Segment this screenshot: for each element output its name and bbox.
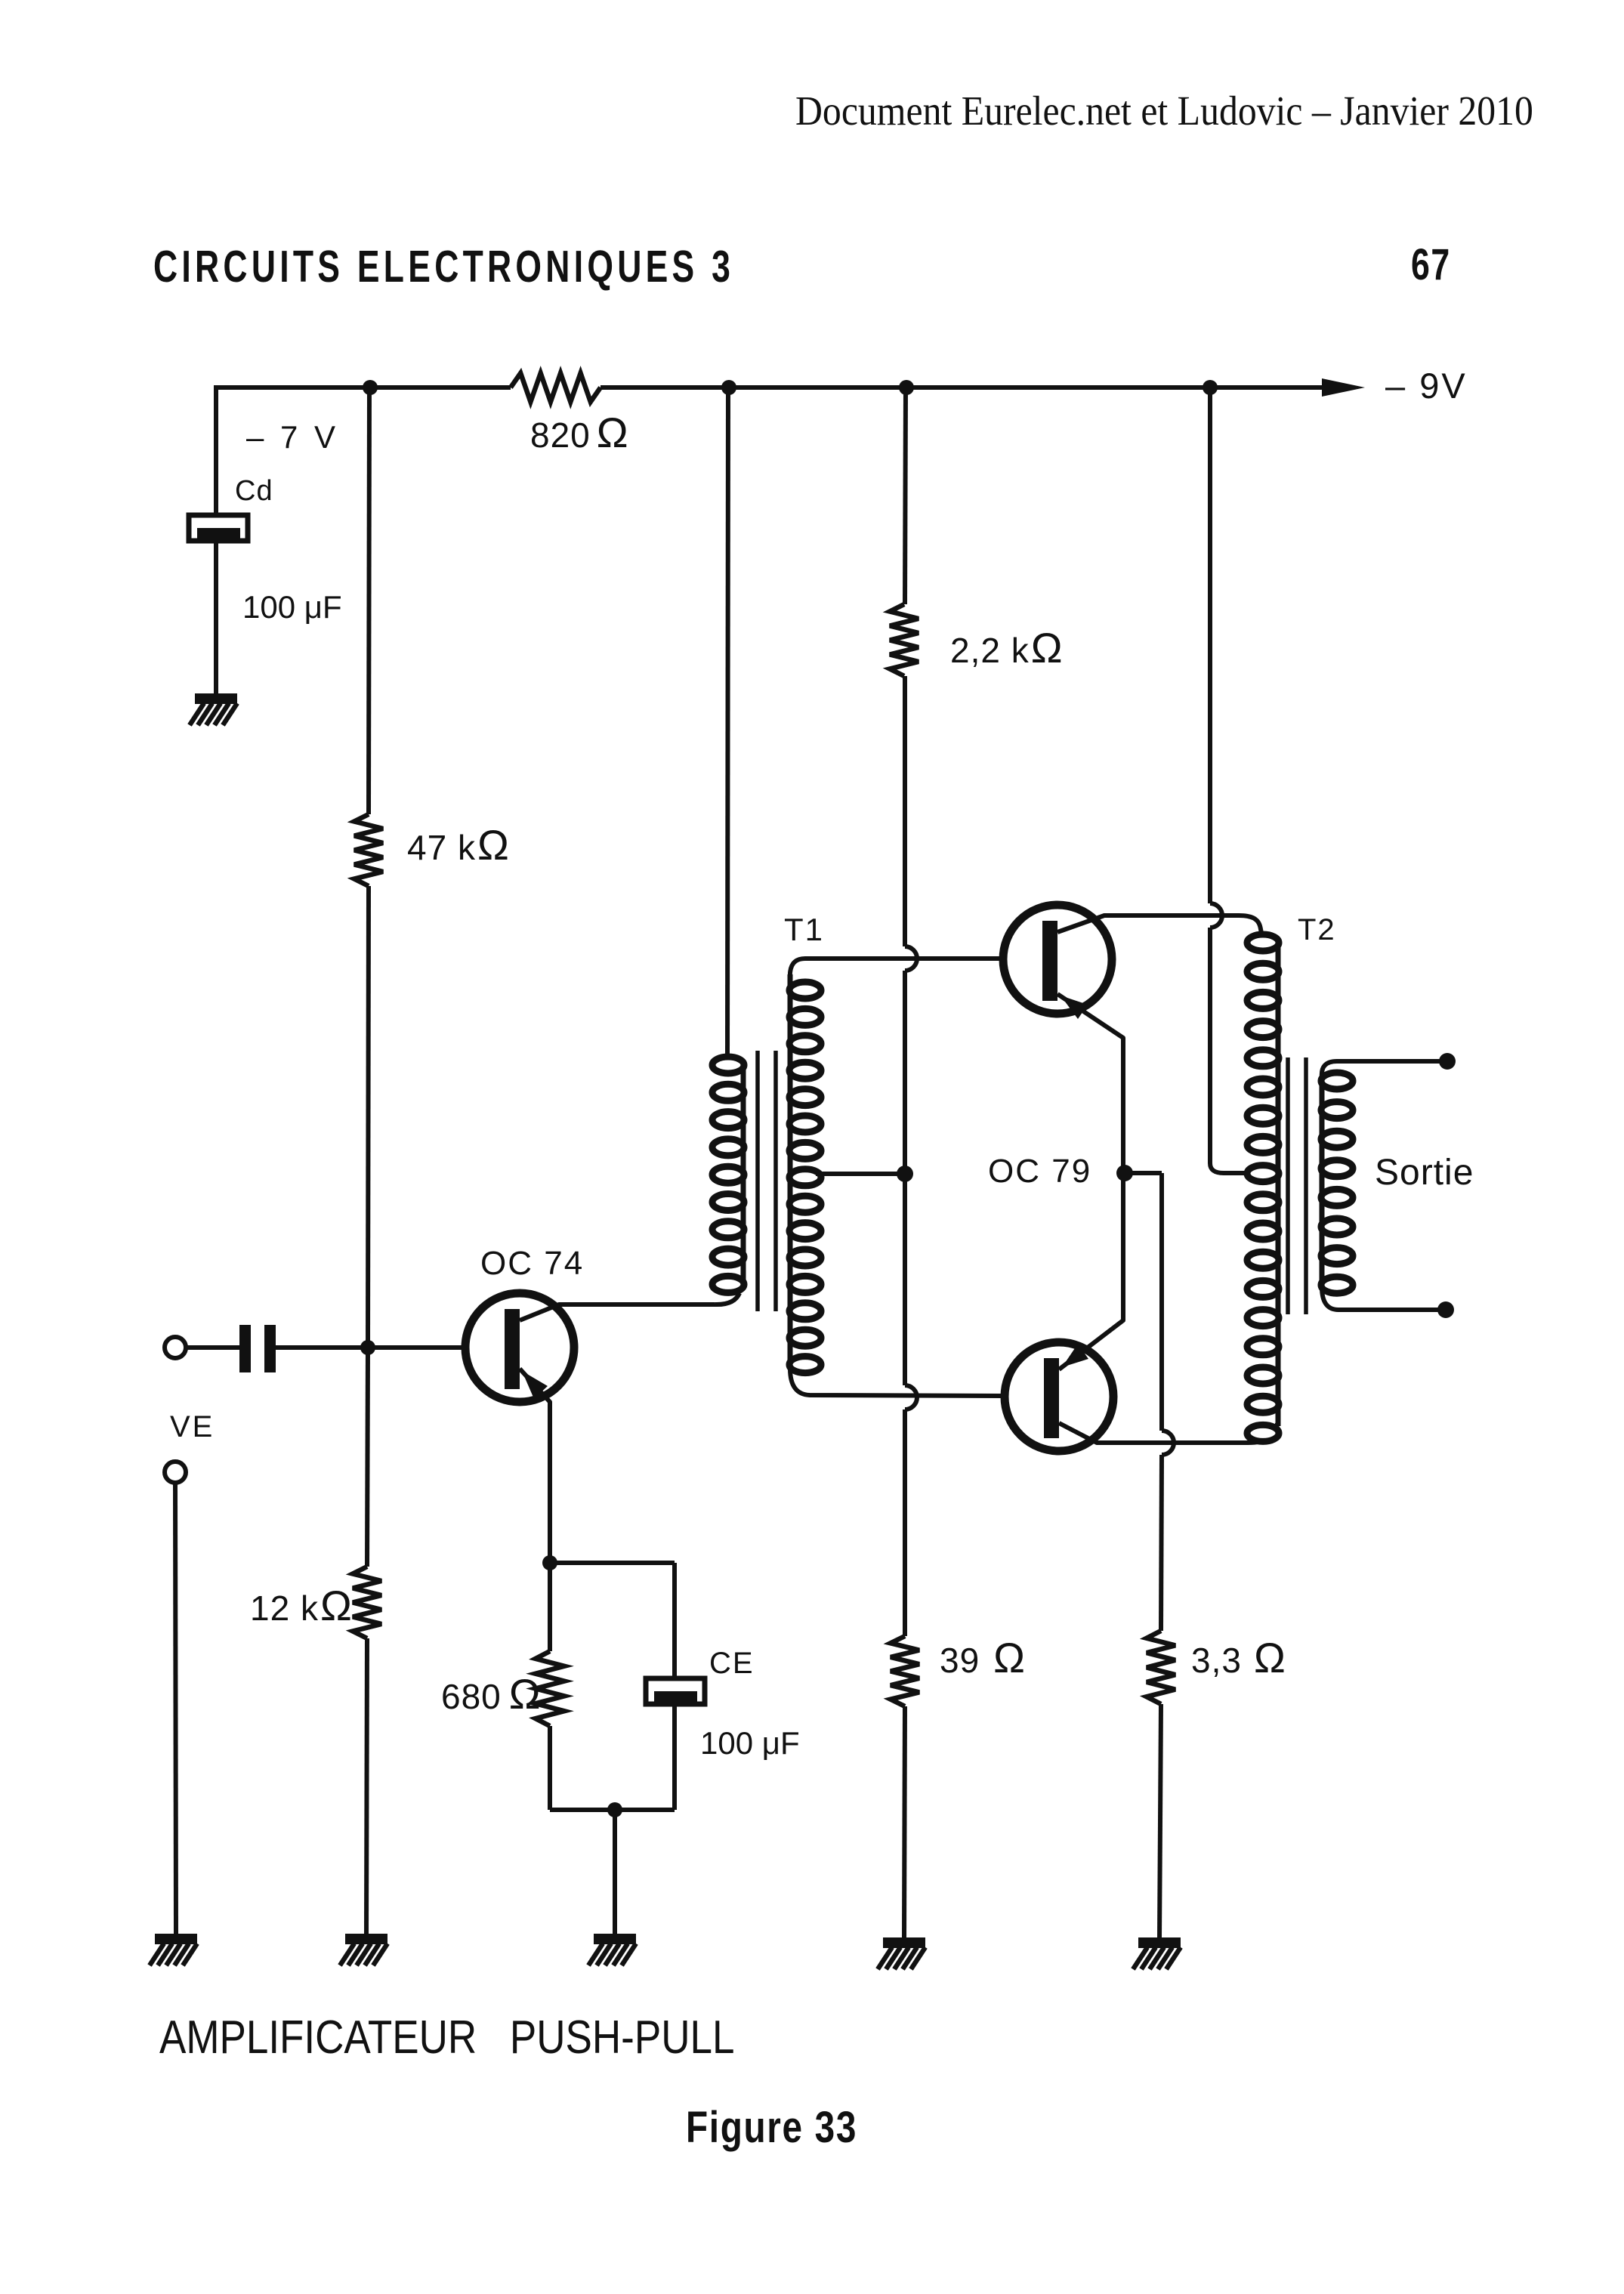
wire left branch down to Cd bbox=[214, 385, 218, 517]
wire 12k to ground bbox=[366, 1638, 367, 1935]
wire common emitter node to 3.3 ohm (hops over T2 bottom lead) bbox=[1125, 1173, 1174, 1631]
label page number 67 bbox=[1411, 239, 1451, 289]
label T1 bbox=[784, 912, 824, 947]
wire top supply rail (-9V) bbox=[216, 385, 1327, 390]
node junction dot centre tap / divider bbox=[897, 1166, 913, 1182]
svg-text:Figure 33: Figure 33 bbox=[686, 2104, 857, 2152]
svg-text:2,2 kΩ: 2,2 kΩ bbox=[950, 624, 1064, 672]
wire 2.2k branch from rail bbox=[905, 387, 906, 604]
label 39 ohm value bbox=[940, 1634, 1026, 1681]
wire OC79 lower collector to T2 primary bottom bbox=[1059, 1423, 1277, 1443]
wire Cd to ground bbox=[214, 541, 218, 695]
label -7V bbox=[246, 419, 339, 455]
node junction dot rail/T2 centre-tap branch bbox=[1203, 380, 1218, 395]
resistor 39 ohm bbox=[891, 1636, 919, 1706]
wire OC79 upper emitter (with arrow) down to common node bbox=[1057, 994, 1123, 1169]
wire T1 primary feed from rail bbox=[727, 387, 728, 1059]
wire base node to 12k bbox=[367, 1348, 368, 1567]
svg-text:100 μF: 100 μF bbox=[700, 1725, 800, 1761]
svg-text:Document Eurelec.net et Ludovi: Document Eurelec.net et Ludovic – Janvie… bbox=[795, 88, 1533, 134]
label Cd bbox=[235, 475, 273, 507]
label book title bbox=[153, 242, 734, 292]
arrowhead -9V supply bbox=[1322, 378, 1365, 397]
transformer T2 core bbox=[1288, 1057, 1306, 1314]
label 2.2 kohm value bbox=[950, 624, 1064, 672]
wire OC79 upper collector to T2 primary top (hop by supply line) bbox=[1057, 915, 1261, 934]
terminal VE (bottom) bbox=[165, 1462, 186, 1483]
wire hop over T1 bottom lead, down to 39 ohm bbox=[905, 1385, 917, 1636]
label 820 ohm value bbox=[530, 409, 629, 456]
label OC 74 bbox=[480, 1245, 584, 1282]
svg-text:100 μF: 100 μF bbox=[242, 589, 342, 625]
transformer T1 secondary winding bbox=[789, 974, 821, 1373]
capacitor input coupling bbox=[239, 1325, 276, 1372]
label 100 uF (Cd value) bbox=[242, 589, 342, 625]
label Sortie bbox=[1375, 1153, 1474, 1193]
node junction dot rail/2.2k branch bbox=[899, 380, 914, 395]
label 680 ohm value bbox=[441, 1670, 542, 1718]
wire T2 secondary bottom lead to output bbox=[1322, 1287, 1438, 1310]
label VE bbox=[170, 1410, 215, 1443]
wire emitter network to ground bbox=[613, 1810, 617, 1935]
node junction dot common emitters bbox=[1116, 1165, 1133, 1181]
wire 680 ohm to bottom node bbox=[548, 1726, 552, 1810]
transistor OC74 (driver) bbox=[465, 1293, 574, 1402]
label 47 kohm value bbox=[407, 821, 510, 869]
svg-text:Sortie: Sortie bbox=[1375, 1153, 1474, 1193]
wire input terminal to coupling capacitor bbox=[186, 1345, 239, 1350]
label caption AMPLIFICATEUR PUSH-PULL bbox=[159, 2011, 734, 2064]
label page header bbox=[795, 88, 1533, 134]
resistor 820 ohm (series in rail) bbox=[511, 373, 601, 402]
label OC 79 bbox=[988, 1153, 1091, 1190]
resistor 3.3 ohm bbox=[1147, 1631, 1175, 1704]
label CE bbox=[709, 1647, 755, 1680]
label 12 kohm value bbox=[250, 1582, 353, 1629]
resistor 2.2 kohm bbox=[890, 604, 919, 676]
wire 39 ohm to ground bbox=[904, 1706, 905, 1939]
svg-text:VE: VE bbox=[170, 1410, 215, 1443]
wire OC74 emitter node bbox=[542, 1555, 557, 1651]
ground symbol below Cd bbox=[190, 693, 237, 725]
wire OC74 collector to T1 primary bbox=[520, 1293, 739, 1320]
label Figure 33 bbox=[686, 2104, 857, 2152]
svg-text:39Ω: 39Ω bbox=[940, 1634, 1026, 1681]
wire T2 centre-tap branch from rail (hops under collector line) bbox=[1210, 387, 1249, 1173]
capacitor Cd (electrolytic) bbox=[189, 515, 248, 541]
wire 3.3 ohm to ground bbox=[1159, 1704, 1161, 1939]
node junction dot rail/T1 primary feed bbox=[721, 380, 736, 395]
svg-text:680Ω: 680Ω bbox=[441, 1670, 542, 1718]
wire T1 secondary top lead to OC79 upper base bbox=[790, 959, 1002, 979]
node junction dot base of OC74 bbox=[360, 1340, 375, 1355]
node junction dot rail/Cd branch bbox=[363, 380, 378, 395]
svg-text:47 kΩ: 47 kΩ bbox=[407, 821, 510, 869]
svg-text:CE: CE bbox=[709, 1647, 755, 1680]
svg-text:CIRCUITS ELECTRONIQUES 3: CIRCUITS ELECTRONIQUES 3 bbox=[153, 242, 734, 292]
svg-text:– 9V: – 9V bbox=[1385, 366, 1468, 406]
wire emitter node to CE branch bbox=[550, 1563, 675, 1680]
wire 47k to base node bbox=[368, 886, 369, 1348]
svg-text:Cd: Cd bbox=[235, 475, 273, 507]
wire T1 secondary centre tap bbox=[816, 1172, 905, 1176]
svg-text:820Ω: 820Ω bbox=[530, 409, 629, 456]
ground symbol below 3.3 ohm bbox=[1133, 1937, 1181, 1969]
svg-text:OC 74: OC 74 bbox=[480, 1245, 584, 1282]
terminal output bottom bbox=[1437, 1301, 1454, 1318]
svg-text:3,3Ω: 3,3Ω bbox=[1191, 1634, 1286, 1681]
ground symbol below VE bbox=[150, 1934, 197, 1965]
ground symbol below 12k bbox=[340, 1934, 387, 1965]
wire bias divider branch (47k/12k) from rail bbox=[369, 387, 369, 814]
transistor OC79 upper bbox=[1003, 905, 1112, 1014]
transistor OC79 lower bbox=[1005, 1342, 1113, 1451]
capacitor CE (electrolytic) bbox=[646, 1678, 705, 1704]
svg-text:12 kΩ: 12 kΩ bbox=[250, 1582, 353, 1629]
terminal output top bbox=[1439, 1053, 1456, 1070]
transformer T2 primary winding bbox=[1247, 934, 1279, 1441]
transformer T2 secondary winding bbox=[1321, 1073, 1353, 1293]
svg-text:T1: T1 bbox=[784, 912, 824, 947]
svg-text:T2: T2 bbox=[1298, 913, 1336, 946]
ground symbol below 39 ohm bbox=[878, 1937, 925, 1969]
ground symbol below emitter network bbox=[588, 1934, 636, 1965]
transformer T1 core bbox=[758, 1051, 776, 1311]
wire 2.2k down to centre-tap node (hops over T1 top lead) bbox=[905, 676, 917, 1385]
wire bottom node joining 680 and CE bbox=[550, 1808, 675, 1812]
wire coupling capacitor to OC74 base bbox=[276, 1345, 464, 1350]
resistor 680 ohm bbox=[536, 1651, 564, 1726]
terminal input (top) bbox=[165, 1337, 186, 1358]
wire T2 secondary top lead to output bbox=[1322, 1061, 1440, 1077]
wire OC79 lower emitter (with arrow) up to common node bbox=[1059, 1177, 1123, 1369]
wire OC74 emitter (with arrow) bbox=[520, 1369, 550, 1563]
label 3.3 ohm value bbox=[1191, 1634, 1286, 1681]
transformer T1 primary winding bbox=[712, 1057, 744, 1292]
svg-text:– 7 V: – 7 V bbox=[246, 419, 339, 455]
node junction dot emitter network ground tap bbox=[607, 1802, 622, 1817]
wire T1 secondary bottom lead to OC79 lower base bbox=[790, 1369, 1003, 1396]
wire VE terminal to ground bbox=[175, 1483, 176, 1935]
svg-text:AMPLIFICATEUR PUSH-PULL: AMPLIFICATEUR PUSH-PULL bbox=[159, 2011, 734, 2064]
label -9V bbox=[1385, 366, 1468, 406]
label T2 bbox=[1298, 913, 1336, 946]
wire CE to bottom node bbox=[672, 1704, 677, 1810]
resistor 12 kohm bbox=[353, 1567, 381, 1638]
label 100 uF (CE value) bbox=[700, 1725, 800, 1761]
svg-text:67: 67 bbox=[1411, 239, 1451, 289]
svg-text:OC 79: OC 79 bbox=[988, 1153, 1091, 1190]
resistor 47 kohm bbox=[354, 814, 383, 886]
